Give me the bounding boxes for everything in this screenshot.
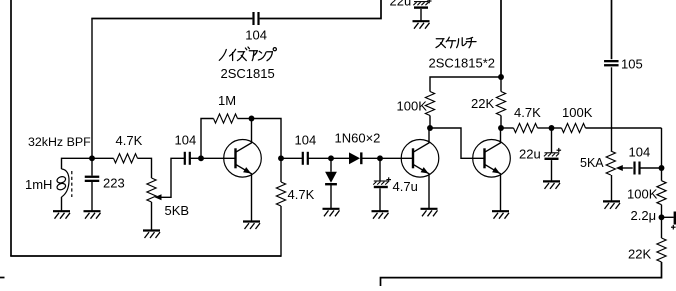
node J junction	[549, 125, 555, 131]
wire riser to R4 bottom	[280, 206, 282, 257]
wire collector node to output	[252, 119, 282, 159]
VR1 wiper arrow	[155, 194, 162, 200]
capacitor C6 22u electrolytic top	[413, 2, 428, 21]
capacitor C9 104	[635, 162, 640, 175]
svg-text:4.7u: 4.7u	[393, 179, 418, 194]
VR2 wiper arrow	[616, 165, 623, 171]
wire C3 to base node	[190, 157, 201, 159]
node A junction dot	[89, 155, 95, 161]
label L1 1mH	[25, 177, 52, 192]
wire stub bottom-left edge	[0, 277, 5, 279]
wire top-left vertical	[91, 19, 93, 159]
label amp ノイズアンプ	[219, 47, 276, 61]
wire wiper to C9	[622, 167, 632, 169]
svg-text:104: 104	[629, 144, 651, 159]
label 32kHz BPF	[28, 135, 91, 149]
svg-text:104: 104	[295, 133, 317, 148]
ground below L1	[53, 211, 70, 219]
diode D1 series 1N60	[349, 152, 361, 164]
wire R1 to pot top	[138, 158, 152, 178]
wire C9 to node K	[640, 167, 661, 169]
potentiometer VR1 5KB	[147, 178, 156, 202]
resistor R9 100K	[657, 168, 666, 205]
wire supply vertical x501	[500, 0, 502, 77]
wire top horizontal left	[91, 18, 252, 20]
label VR2 5KA	[580, 156, 604, 170]
label R9 100K	[627, 187, 658, 202]
wire inductor to ground	[61, 197, 63, 211]
svg-text:104: 104	[175, 133, 197, 148]
resistor R2 1M	[214, 114, 238, 123]
svg-text:22u: 22u	[390, 0, 412, 9]
label C2 223	[103, 175, 125, 190]
wire top horizontal right	[260, 0, 381, 19]
ground below Q1	[243, 222, 260, 230]
wire node I to R7	[501, 127, 514, 129]
wire node G to R5 top	[430, 77, 501, 92]
label C4 104	[295, 133, 317, 148]
wire D1 to node F	[363, 157, 381, 159]
node B base junction	[198, 155, 204, 161]
label R8 100K	[562, 105, 593, 120]
capacitor C4 104	[303, 152, 308, 165]
node G junction	[498, 74, 504, 80]
svg-text:100K: 100K	[627, 187, 658, 202]
ground below C5	[372, 211, 389, 219]
resistor R1 4.7K	[114, 154, 138, 163]
svg-text:105: 105	[621, 57, 643, 72]
capacitor C7 22u electrolytic	[544, 128, 559, 181]
capacitor C3 104	[185, 152, 190, 165]
label squelch スケルチ	[436, 37, 476, 48]
svg-text:1N60×2: 1N60×2	[335, 130, 381, 145]
wire R7 to node J	[538, 127, 552, 129]
transistor Q3 2SC1815	[473, 128, 511, 211]
label C7 22u	[519, 146, 541, 161]
svg-text:5KA: 5KA	[580, 156, 604, 170]
wire bottom-right rail	[381, 262, 662, 286]
wire VR2 to ground	[611, 175, 613, 201]
wire node D to C4	[281, 157, 302, 159]
label C5 4.7u	[393, 179, 418, 194]
node F junction	[377, 155, 383, 161]
svg-text:4.7K: 4.7K	[288, 187, 315, 202]
ground below Q2	[421, 209, 438, 217]
svg-text:1M: 1M	[218, 93, 236, 108]
ground below C7	[543, 181, 560, 189]
wire corner down to node K	[661, 128, 663, 168]
svg-text:223: 223	[103, 175, 125, 190]
svg-text:104: 104	[245, 28, 267, 43]
diode D2 shunt 1N60	[325, 158, 337, 208]
label C9 104	[629, 144, 651, 159]
resistor R6 22K	[496, 77, 505, 116]
wire to inductor	[62, 158, 93, 169]
transistor Q1 2SC1815	[224, 119, 262, 221]
svg-text:32kHz BPF: 32kHz BPF	[28, 135, 91, 149]
svg-text:2SC1815*2: 2SC1815*2	[429, 56, 496, 71]
ground below C2	[84, 211, 101, 219]
wire wiper to C3	[161, 158, 184, 197]
wire C2 to ground	[91, 182, 93, 211]
resistor R7 4.7K	[514, 123, 538, 132]
plus mark C5	[386, 177, 391, 182]
node L junction	[659, 214, 665, 220]
wire R5 to node H	[429, 116, 431, 129]
ground below C6	[413, 21, 430, 29]
label C8 105	[621, 57, 643, 72]
node H junction	[427, 125, 433, 131]
wire C4 to node E	[308, 157, 331, 159]
potentiometer VR2 5KA	[606, 151, 615, 175]
label C1 104	[245, 28, 267, 43]
node D output junction	[278, 155, 284, 161]
label amp 2SC1815	[221, 66, 275, 81]
resistor R8 100K	[562, 123, 586, 132]
wire Q2 collector link to Q3 base	[430, 128, 485, 158]
svg-text:22u: 22u	[519, 146, 541, 161]
wire node E to D1	[331, 157, 349, 159]
wire node A to R1	[92, 157, 114, 159]
plus mark C10	[671, 225, 676, 230]
node E junction	[328, 155, 334, 161]
wire node A down to C2	[91, 158, 93, 175]
wire C8 to row	[611, 67, 613, 128]
svg-text:4.7K: 4.7K	[514, 105, 541, 120]
capacitor C10 2.2u output	[662, 212, 675, 225]
capacitor C2 223	[85, 177, 100, 181]
plus mark C7	[557, 148, 562, 153]
wire bottom-left rail	[10, 255, 281, 257]
wire R6 to node I	[500, 116, 502, 129]
label C6 22u	[390, 0, 412, 9]
ground below Q3	[492, 211, 509, 219]
label R10 22K	[628, 246, 651, 261]
node I junction	[498, 125, 504, 131]
resistor R5 100K	[425, 92, 434, 116]
resistor R4 4.7K collector load	[276, 182, 285, 206]
wire pot to ground	[151, 202, 153, 230]
wire R2 to collector node	[238, 118, 252, 120]
label R2 1M	[218, 93, 236, 108]
inductor L1 1mH coil	[56, 169, 69, 197]
svg-text:22K: 22K	[628, 246, 651, 261]
plus mark C6	[427, 0, 432, 3]
ground below VR1	[143, 231, 160, 239]
svg-text:22K: 22K	[471, 96, 494, 111]
svg-text:2.2μ: 2.2μ	[631, 208, 657, 223]
wire node F to Q2 base	[380, 157, 413, 159]
label C10 2.2u	[631, 208, 657, 223]
wire node D to R4	[280, 158, 282, 182]
label C3 104	[175, 133, 197, 148]
wire R8 to corner	[586, 127, 662, 129]
capacitor C8 105	[604, 61, 619, 65]
svg-text:5KB: 5KB	[165, 203, 190, 218]
label diodes 1N60×2	[335, 130, 381, 145]
label R1 4.7K	[116, 133, 143, 148]
label R5 100K	[397, 99, 428, 114]
capacitor C1 104 top	[254, 12, 259, 25]
ground below VR2	[603, 201, 620, 209]
svg-text:100K: 100K	[562, 105, 593, 120]
node K junction	[659, 165, 665, 171]
capacitor C5 4.7u electrolytic	[373, 158, 388, 210]
wire row to VR2	[611, 128, 613, 151]
label squelch 2SC1815*2	[429, 56, 496, 71]
wire base lead Q1	[201, 157, 235, 159]
svg-text:1mH: 1mH	[25, 177, 52, 192]
transistor Q2 2SC1815	[401, 128, 439, 209]
resistor R10 22K	[657, 217, 666, 262]
label VR1 5KB	[165, 203, 190, 218]
inductor core dashed	[71, 171, 73, 197]
wire node J to R8	[552, 127, 562, 129]
wire V+ rail left	[10, 0, 12, 256]
wire base node up to R2	[201, 119, 214, 159]
wire 105 vertical top	[611, 0, 613, 59]
svg-text:4.7K: 4.7K	[116, 133, 143, 148]
svg-text:2SC1815: 2SC1815	[221, 66, 275, 81]
label R6 22K	[471, 96, 494, 111]
ground below D2	[323, 209, 340, 217]
label R7 4.7K	[514, 105, 541, 120]
wire R9 to node L	[661, 205, 663, 218]
node C collector junction	[249, 116, 255, 122]
label R4 4.7K	[288, 187, 315, 202]
svg-text:100K: 100K	[397, 99, 428, 114]
